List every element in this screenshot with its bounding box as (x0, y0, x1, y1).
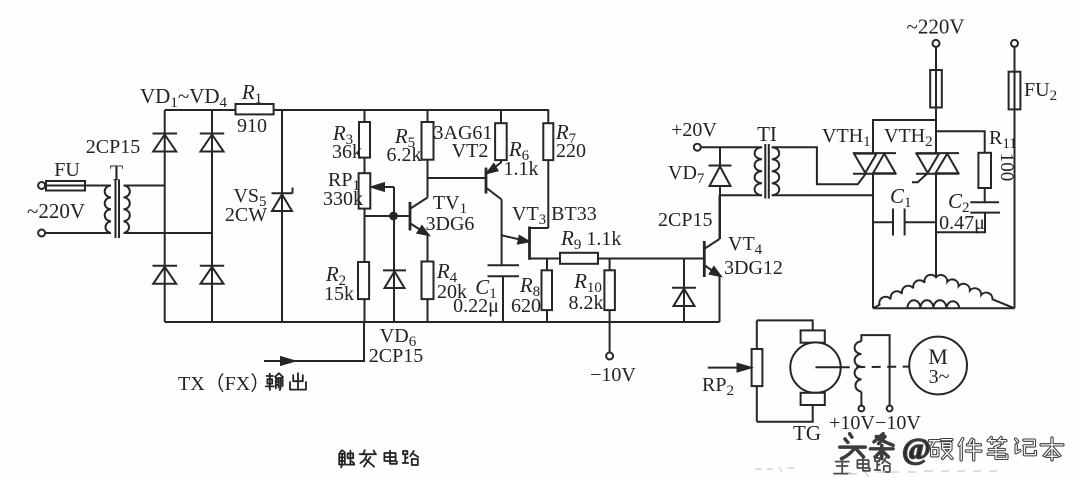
svg-text:VTH2: VTH2 (884, 125, 933, 150)
svg-text:36k: 36k (332, 141, 362, 163)
watermark 硬 (930, 440, 952, 459)
svg-text:100: 100 (996, 153, 1017, 182)
wire R8 to bus (546, 310, 548, 322)
potentiometer RP1 (359, 173, 371, 208)
watermark 本 (1041, 438, 1063, 460)
terminal -10V (606, 353, 613, 360)
terminal ~220V bottom left (38, 230, 45, 237)
svg-text:TX（FX）: TX（FX） (178, 372, 270, 395)
wire VD7 to TI primary bottom (720, 194, 762, 196)
transformer T secondary winding (124, 186, 130, 233)
capacitor C2 (970, 201, 999, 203)
wire R2 to bottom bus (364, 299, 366, 322)
svg-text:FU2: FU2 (1024, 79, 1057, 104)
resistor R11 (978, 153, 991, 188)
watermark 记 (1016, 439, 1036, 455)
node junction dot (390, 213, 397, 220)
wire R11 to C2 (984, 188, 986, 202)
wire TI secondary bottom to VTH1 MT1 (772, 194, 873, 196)
wire FU2 (1014, 47, 1016, 72)
wire VTH1 MT1 down (872, 174, 874, 308)
transformer TI primary (755, 147, 762, 195)
svg-text:VT3 BT33: VT3 BT33 (512, 203, 597, 228)
wire R8 branch (546, 259, 548, 271)
watermark 笔 (988, 438, 1007, 459)
motor bottom winding (907, 300, 959, 308)
watermark 头条 (840, 434, 866, 459)
motor M circle (909, 337, 967, 395)
svg-text:+20V: +20V (671, 119, 717, 141)
wire to transformer primary bottom (45, 232, 111, 234)
svg-text:15k: 15k (324, 283, 354, 305)
TG loop left (756, 320, 758, 421)
transistor TV1 (409, 202, 412, 231)
generator TG (790, 342, 840, 392)
potentiometer RP2 (752, 349, 763, 386)
motor stator winding dome (873, 275, 1015, 309)
wire R10 to bus (609, 310, 611, 322)
wire R6 top (500, 110, 502, 123)
transistor VT4 (703, 241, 706, 277)
svg-text:0.47μ: 0.47μ (939, 212, 985, 234)
svg-text:R1: R1 (241, 80, 262, 107)
field coil bottom lead (860, 392, 862, 406)
caption 触发电路 (339, 450, 354, 467)
wire secondary top to bridge left column (124, 185, 165, 187)
svg-text:2CP15: 2CP15 (369, 345, 423, 367)
wire R10 branch (609, 259, 611, 271)
capacitor C1 trigger (488, 264, 520, 266)
wire bottom bus (165, 321, 720, 323)
wire VD6 column (393, 216, 395, 322)
glyph 输 (266, 373, 283, 390)
svg-text:2CP15: 2CP15 (86, 136, 140, 158)
resistor R8 (542, 270, 553, 310)
glyph 出 (290, 373, 306, 389)
diode VD8 (683, 259, 685, 323)
wire R5 bottom to VT2 base (428, 177, 487, 179)
wire R7 top (547, 110, 549, 123)
svg-text:620: 620 (511, 295, 541, 317)
fuse FU2 (1009, 72, 1021, 110)
transformer T primary winding (105, 186, 111, 233)
wire RP1 to R2 (364, 209, 366, 262)
diode VD4 (200, 265, 224, 267)
wire TV1 base (365, 215, 410, 217)
wire secondary bottom to bridge right column (124, 232, 213, 234)
field coil winding (855, 341, 862, 391)
svg-text:C1: C1 (890, 184, 912, 211)
wire mains down (935, 47, 937, 153)
svg-text:VT4: VT4 (728, 233, 763, 258)
wire R11 feed (936, 131, 985, 153)
resistor R6 (495, 123, 507, 160)
wire TV1 emitter to R4 (427, 235, 429, 262)
resistor R4 (422, 262, 434, 300)
svg-text:0.22μ: 0.22μ (453, 295, 499, 317)
svg-text:3~: 3~ (929, 366, 950, 388)
TG brush bottom (801, 393, 825, 405)
svg-text:330k: 330k (323, 188, 363, 210)
wire fuse FU input (45, 185, 111, 187)
wire VT4 collector up (719, 195, 721, 239)
resistor R2 (358, 262, 369, 299)
field coil top jog (861, 335, 889, 406)
svg-text:@: @ (902, 431, 931, 466)
svg-text:TI: TI (757, 122, 777, 146)
diode VD2 (200, 133, 224, 135)
svg-text:TG: TG (793, 421, 821, 445)
terminal ~220V top left (38, 182, 45, 189)
wire TI secondary top to VTH1 gate (772, 147, 866, 184)
triac VTH2 (916, 152, 959, 154)
diode VD3 (153, 265, 178, 267)
resistor R9 (560, 253, 598, 264)
wire R9 to VT4 base (598, 258, 704, 260)
TG loop bottom (757, 405, 813, 422)
caption 主电路 (834, 458, 850, 474)
wire R4 to bottom bus (427, 299, 429, 322)
wire R5 top (427, 110, 429, 122)
transistor VT3 unijunction (528, 227, 531, 260)
capacitor C1 main (873, 221, 893, 223)
wire TV1 collector to R5 (427, 160, 429, 198)
svg-text:3DG12: 3DG12 (724, 257, 783, 279)
wire R3 to RP1 (364, 158, 366, 174)
resistor R10 (604, 270, 615, 310)
svg-text:2CP15: 2CP15 (658, 209, 712, 231)
wire R3 column top (364, 110, 366, 122)
shaft dashed coupling (841, 366, 910, 369)
svg-text:1.1k: 1.1k (504, 158, 539, 180)
svg-text:220: 220 (556, 140, 586, 162)
svg-text:6.2k: 6.2k (387, 144, 422, 166)
transistor VT2 (485, 168, 488, 194)
wire VT4 emitter to bus (719, 276, 721, 323)
svg-text:R9 1.1k: R9 1.1k (560, 226, 621, 253)
svg-text:8.2k: 8.2k (569, 292, 604, 314)
wire R7 bottom to VT3 B2 (547, 160, 549, 228)
zener VS5 wire (281, 110, 283, 322)
svg-text:−10V: −10V (590, 364, 636, 386)
fuse FU1 main (930, 70, 942, 108)
wire VTH1 MT2 up (873, 120, 936, 153)
TG shaft line (816, 366, 841, 368)
wire +20V to TI primary (701, 146, 762, 148)
fuse FU (46, 181, 85, 191)
TG brush top (801, 330, 825, 342)
svg-text:~220V: ~220V (27, 199, 85, 223)
svg-text:3DG6: 3DG6 (426, 213, 475, 235)
wire R6 bottom to VT2 emitter (500, 160, 502, 163)
svg-text:2CW: 2CW (225, 204, 267, 226)
motor stator baseline (873, 307, 1015, 309)
zener VS5 (272, 192, 293, 194)
diode VD7 (719, 147, 721, 166)
resistor R3 (359, 122, 370, 158)
svg-text:910: 910 (237, 115, 267, 137)
wire VTH2 MT1 down to motor (935, 174, 937, 277)
terminal -10V right (887, 406, 893, 412)
triac VTH1 (853, 152, 896, 154)
RP2 arrow (708, 367, 745, 369)
wire top bus (165, 109, 549, 111)
svg-text:+10V: +10V (829, 412, 875, 434)
resistor R1 (236, 104, 274, 114)
terminal +10V (859, 406, 865, 412)
diode VD1 (153, 133, 178, 135)
svg-text:VD7: VD7 (668, 162, 705, 187)
svg-text:T: T (110, 160, 124, 185)
wire -10V drop (609, 322, 611, 353)
wire TX output (264, 322, 364, 361)
faint cropped caption text bottom (755, 467, 997, 477)
transformer T core (115, 180, 117, 238)
svg-text:RP2: RP2 (702, 374, 734, 399)
wire bridge left column (164, 110, 166, 322)
TG loop top (757, 320, 813, 330)
svg-text:R11: R11 (989, 127, 1017, 152)
terminal ~220V mains right (933, 40, 940, 47)
transformer TI core (764, 144, 766, 199)
resistor R7 (543, 123, 553, 160)
VTH2 gate stub (912, 174, 927, 183)
wire FU2 down to motor (1014, 109, 1016, 308)
wire VT2 collector column (501, 200, 503, 266)
svg-text:~220V: ~220V (906, 15, 964, 39)
RP1 wiper arrow (377, 186, 394, 188)
watermark 件 (959, 439, 981, 460)
terminal FU2 top (1011, 40, 1018, 47)
diode VD6 (383, 269, 406, 271)
resistor R5 (422, 122, 434, 160)
svg-text:VD1~VD4: VD1~VD4 (140, 84, 228, 111)
wire bridge right column (211, 110, 213, 322)
svg-text:VTH1: VTH1 (822, 125, 871, 150)
transformer TI secondary (772, 147, 779, 195)
svg-text:VT2: VT2 (452, 140, 489, 162)
terminal +20V (694, 144, 701, 151)
svg-text:FU: FU (54, 159, 80, 181)
